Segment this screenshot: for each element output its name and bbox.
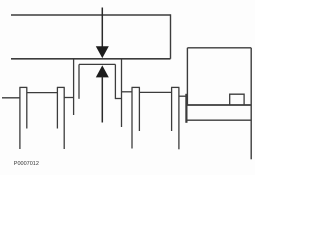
arrow up bbox=[96, 65, 109, 77]
gear band right edge bbox=[170, 14, 172, 59]
flange thick vertical bbox=[185, 94, 187, 123]
arrow down bbox=[96, 46, 109, 58]
housing box left bbox=[186, 48, 188, 105]
post2 right line bbox=[63, 87, 65, 149]
connector hub to post3 bbox=[122, 91, 133, 93]
housing box top bbox=[187, 47, 251, 49]
left shaft stub bbox=[2, 97, 20, 99]
measurement stem upper bbox=[101, 8, 103, 48]
post1 left line bbox=[19, 87, 21, 149]
post4 left line bbox=[171, 87, 173, 131]
post4 right line bbox=[178, 87, 180, 149]
housing box right edge bbox=[250, 48, 252, 160]
notch rectangle bbox=[230, 94, 244, 105]
hub outer-right vertical bbox=[121, 59, 123, 127]
measurement stem lower bbox=[101, 77, 103, 123]
post3 left line bbox=[131, 87, 133, 148]
post3 right line bbox=[138, 87, 140, 131]
gear band bottom edge bbox=[11, 58, 171, 60]
post1 cap bbox=[19, 86, 27, 88]
connector post2 to hub bbox=[64, 97, 74, 99]
post1 right line bbox=[26, 87, 28, 128]
post4 cap bbox=[171, 86, 179, 88]
post2 left line bbox=[56, 87, 58, 128]
gear band top edge bbox=[11, 14, 171, 16]
post2 cap bbox=[57, 86, 65, 88]
post3 cap bbox=[132, 86, 140, 88]
hub slot floor bbox=[79, 63, 115, 65]
stub post4 to flange bbox=[179, 95, 187, 97]
connector hub inner-right to outer-right bbox=[115, 98, 121, 100]
housing box bottom bbox=[186, 104, 251, 106]
hub inner-left vertical bbox=[78, 64, 80, 98]
hub outer-left vertical bbox=[73, 59, 75, 115]
svg-text:P0007012: P0007012 bbox=[14, 161, 39, 167]
shaft line posts1-2 bbox=[27, 92, 58, 94]
housing lower line bbox=[186, 119, 251, 121]
shaft line posts3-4 bbox=[139, 91, 171, 93]
hub inner-right vertical bbox=[114, 64, 116, 99]
